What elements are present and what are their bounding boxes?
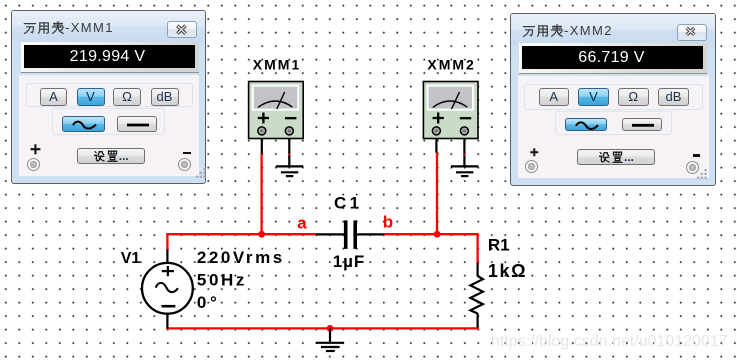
- junction node b dot: [434, 231, 441, 238]
- watermark: [491, 333, 736, 351]
- instrument window XMM1: [11, 10, 206, 184]
- title bar: [511, 14, 715, 45]
- signal group box: [555, 111, 672, 135]
- button A: [40, 88, 67, 106]
- svg-text:C1: C1: [334, 193, 362, 212]
- button dB: [658, 88, 689, 106]
- plus terminal: [27, 158, 40, 171]
- svg-text:1µF: 1µF: [333, 252, 366, 271]
- minus terminal: [686, 161, 699, 174]
- svg-text:220Vrms: 220Vrms: [197, 248, 285, 267]
- button AC (selected): [565, 118, 608, 132]
- settings button: [577, 149, 655, 165]
- button DC: [117, 116, 157, 132]
- button V (selected): [578, 88, 609, 106]
- svg-text:R1: R1: [488, 235, 510, 254]
- button V (selected): [77, 88, 105, 106]
- svg-text:0°: 0°: [197, 293, 221, 312]
- window title: [522, 22, 613, 38]
- svg-text:50Hz: 50Hz: [197, 271, 247, 290]
- plus label: [30, 144, 41, 155]
- signal group box: [52, 108, 165, 135]
- junction ground net dot: [327, 325, 334, 332]
- svg-text:a: a: [297, 213, 307, 232]
- button A: [539, 88, 570, 106]
- ground (XMM2 minus): [451, 166, 478, 176]
- reading display: [519, 43, 707, 73]
- minus label: [693, 154, 700, 156]
- minus terminal: [178, 158, 191, 171]
- button AC (selected): [62, 116, 105, 132]
- plus label: [530, 148, 539, 157]
- minus label: [183, 152, 191, 154]
- wire: bottom ground net: [166, 327, 478, 329]
- wire: R1 top vertical: [476, 234, 478, 263]
- instrument window XMM2: [510, 13, 716, 186]
- plus terminal: [525, 160, 538, 173]
- button Ohm: [113, 88, 141, 106]
- inner panel: [19, 75, 199, 176]
- button DC: [622, 118, 663, 132]
- close button: [677, 24, 707, 41]
- resistor R1: [470, 263, 483, 328]
- svg-text:b: b: [383, 212, 393, 231]
- settings button: [77, 148, 146, 164]
- resize grip: [697, 169, 708, 180]
- wire: R1 bottom vertical stub: [476, 326, 478, 330]
- wire: top net a, V1 top to C1 left: [166, 233, 316, 235]
- wire: XMM2 plus lead down to node b: [436, 152, 438, 234]
- inner panel: [518, 76, 709, 178]
- resize grip: [196, 168, 207, 179]
- wire: V1 bottom vertical stub: [166, 327, 168, 329]
- mode group box: [26, 83, 193, 107]
- AC source V1: [142, 250, 193, 329]
- junction node a dot: [258, 231, 265, 238]
- capacitor C1: [316, 220, 384, 249]
- ground (XMM1 minus): [276, 166, 303, 176]
- button Ohm: [618, 88, 649, 106]
- svg-text:XMM2: XMM2: [427, 56, 475, 72]
- svg-text:V1: V1: [121, 250, 141, 267]
- multimeter symbol XMM1: [249, 82, 304, 167]
- wire: V1 top vertical: [166, 233, 168, 250]
- close button: [167, 21, 197, 38]
- button dB: [151, 88, 179, 106]
- reading display: [21, 42, 199, 72]
- title bar: [12, 11, 205, 42]
- svg-text:XMM1: XMM1: [253, 56, 301, 72]
- ground (main, bottom net): [316, 328, 344, 351]
- mode group box: [524, 84, 703, 110]
- wire: XMM1 plus lead down to node a: [260, 153, 262, 234]
- svg-text:1kΩ: 1kΩ: [488, 261, 527, 281]
- window title: [23, 19, 114, 35]
- multimeter symbol XMM2: [423, 82, 478, 167]
- wire: net b, C1 right to R1 corner: [384, 233, 479, 235]
